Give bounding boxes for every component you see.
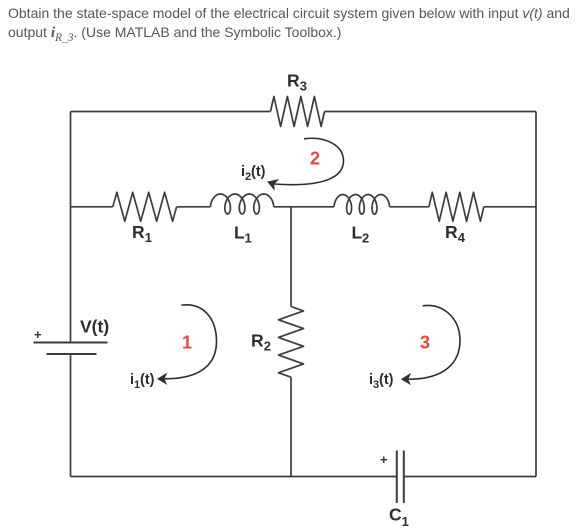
loop arrow 1 (157, 305, 217, 385)
svg-text:3: 3 (300, 79, 307, 94)
label L1 (234, 223, 252, 246)
svg-text:2: 2 (264, 338, 271, 353)
wire: middle row far-left segment (71, 206, 113, 208)
svg-text:1: 1 (182, 333, 192, 353)
label R3 (287, 71, 307, 94)
svg-text:(t): (t) (140, 372, 155, 388)
label R4 (445, 222, 466, 245)
label i3(t) (369, 372, 394, 391)
label V(t) (80, 317, 109, 337)
svg-text:R: R (287, 71, 300, 91)
wire: right vertical (535, 112, 537, 477)
svg-text:(t): (t) (251, 164, 266, 180)
svg-text:3: 3 (420, 333, 430, 353)
problem statement text (8, 4, 576, 49)
resistor R1 (113, 192, 177, 221)
resistor R2 (279, 307, 304, 378)
wire: R1 to L1 (177, 206, 211, 208)
svg-text:1: 1 (402, 514, 409, 529)
wire: L2 to R4 (390, 206, 429, 208)
label + of C1 (380, 452, 388, 467)
wire: left vertical upper (corner to battery) (70, 112, 72, 343)
svg-text:R: R (132, 222, 145, 242)
resistor R3 (271, 97, 325, 127)
inductor L1 (210, 194, 273, 214)
svg-text:+: + (380, 452, 388, 467)
wire: L1 to L2 through node (274, 206, 334, 208)
svg-text:L: L (234, 223, 245, 243)
label C1 (389, 505, 409, 530)
svg-text:(t): (t) (379, 372, 394, 388)
wire: middle vertical below R2 (290, 377, 292, 476)
resistor R4 (429, 192, 484, 221)
voltage source V(t) battery (34, 343, 108, 355)
wire: R4 to right wall (484, 206, 536, 208)
loop number 1 (182, 333, 192, 353)
wire: left vertical lower (battery to bottom corner) (70, 354, 72, 477)
svg-text:1: 1 (245, 231, 252, 246)
label i1(t) (130, 372, 155, 391)
label R1 (132, 222, 152, 245)
loop number 2 (310, 149, 320, 169)
svg-text:R: R (251, 330, 264, 350)
svg-text:1: 1 (145, 230, 152, 245)
svg-text:V(t): V(t) (80, 317, 109, 337)
loop number 3 (420, 333, 430, 353)
label L2 (352, 223, 370, 246)
inductor L2 (334, 195, 390, 215)
svg-text:2: 2 (310, 149, 320, 169)
svg-text:R: R (445, 222, 458, 242)
svg-text:2: 2 (362, 231, 369, 246)
loop arrow 3 (401, 305, 460, 385)
label + of source (34, 327, 42, 342)
wire: top-right horizontal (R3 to right corner) (325, 111, 537, 113)
svg-text:C: C (389, 505, 402, 525)
svg-text:L: L (352, 223, 363, 243)
svg-text:4: 4 (458, 230, 466, 245)
capacitor C1 (397, 451, 404, 504)
wire: middle vertical above R2 (290, 207, 292, 307)
loop arrow 2 (267, 138, 343, 190)
wire: bottom horizontal left (to C1) (71, 476, 397, 478)
svg-text:+: + (34, 327, 42, 342)
wire: top-left horizontal (left corner to R3) (71, 111, 271, 113)
label i2(t) (241, 164, 266, 183)
wire: bottom horizontal right (C1 to right corner) (404, 476, 536, 478)
label R2 (251, 330, 271, 353)
